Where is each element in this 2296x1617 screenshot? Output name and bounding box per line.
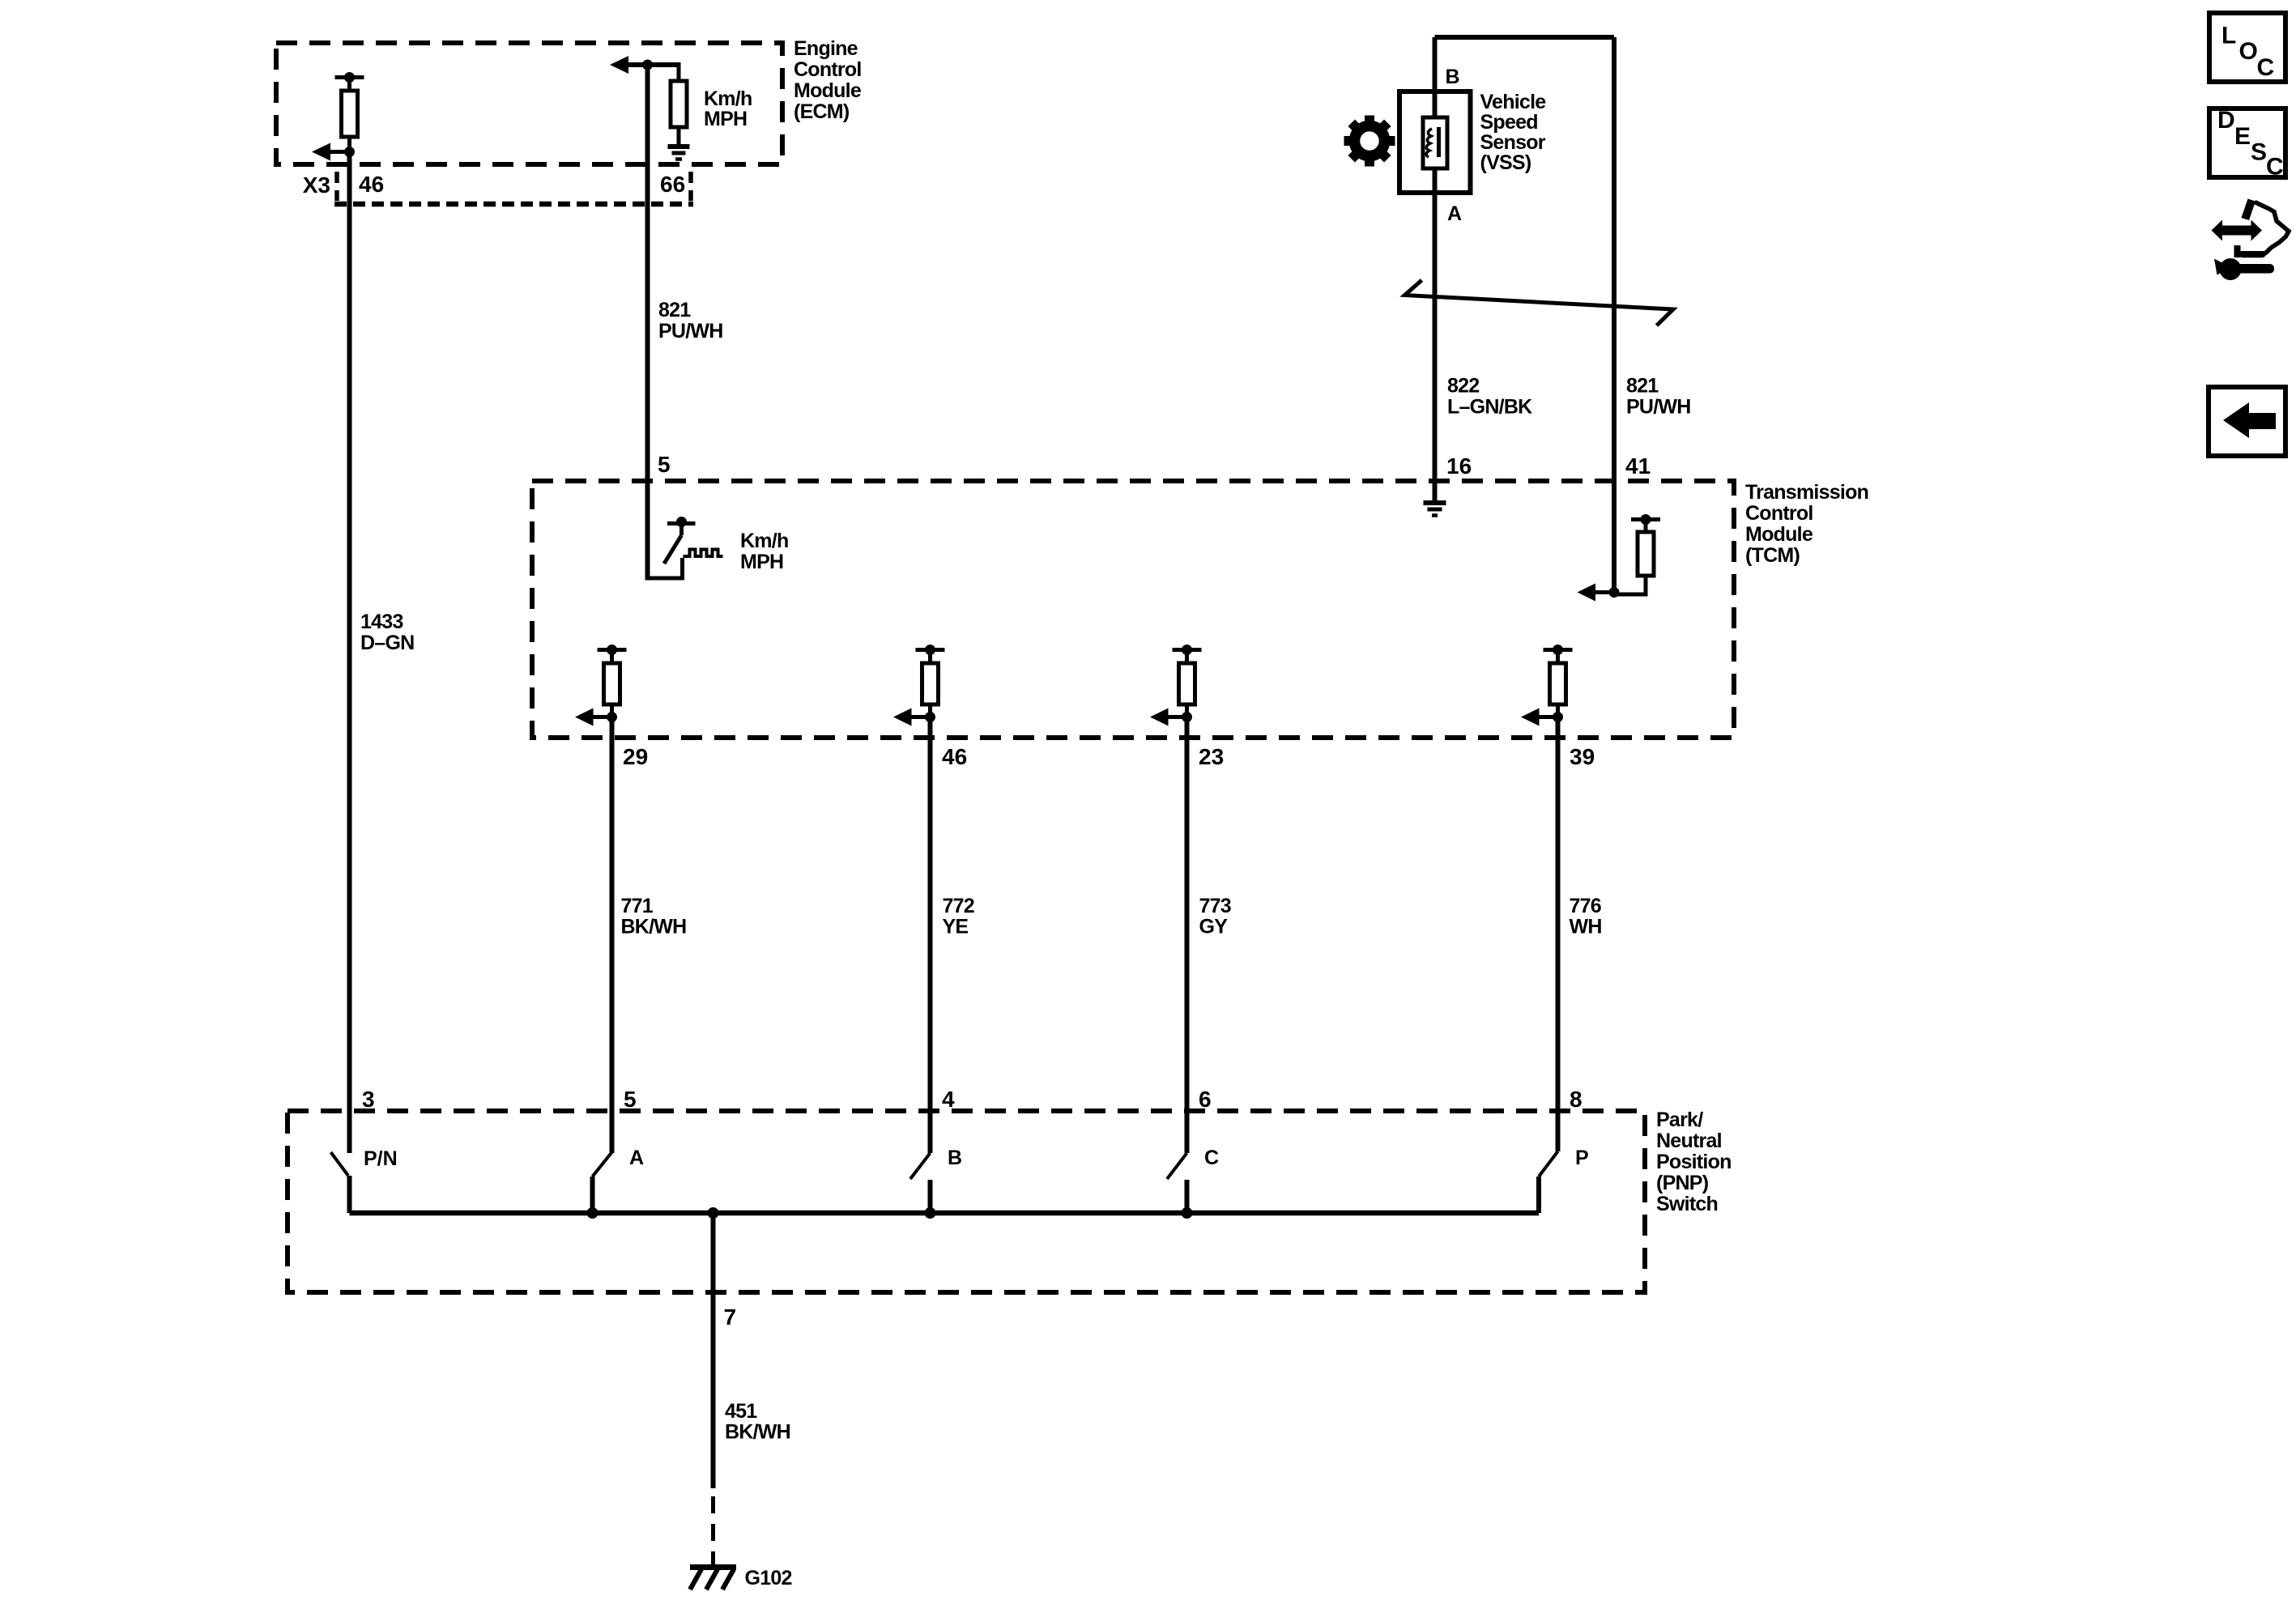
label: Transmission Control Module (TCM)	[1745, 481, 1868, 567]
switch P/N blade and lower contact	[331, 1152, 350, 1213]
svg-text:BK/WH: BK/WH	[621, 916, 687, 938]
svg-text:C: C	[2257, 54, 2275, 81]
label: G102	[745, 1567, 792, 1589]
svg-text:Switch: Switch	[1656, 1193, 1718, 1215]
ground: TCM pin 16 internal ground	[1424, 503, 1446, 516]
wire: 771 BK/WH from TCM pin 29 to PNP switch A	[610, 717, 615, 1154]
svg-text:Speed: Speed	[1480, 111, 1538, 134]
svg-text:772: 772	[943, 895, 974, 917]
pin 8 (PNP)	[1570, 1087, 1582, 1112]
svg-text:29: 29	[623, 744, 648, 769]
pin 5 (TCM)	[658, 452, 671, 477]
svg-text:A: A	[1447, 202, 1462, 225]
switch P blade and lower contact	[1539, 1151, 1558, 1213]
svg-text:Transmission: Transmission	[1745, 481, 1868, 504]
svg-text:C: C	[2266, 154, 2284, 181]
svg-text:5: 5	[658, 452, 671, 477]
label: wire 821 PU/WH (left run)	[658, 299, 723, 343]
signal arrow at TCM pin 41 with junction dot	[1578, 584, 1620, 602]
svg-text:821: 821	[658, 299, 691, 321]
svg-text:4: 4	[942, 1087, 955, 1112]
svg-text:S: S	[2251, 139, 2267, 166]
signal arrow at TCM pin 23 with junction dot	[1150, 709, 1192, 726]
svg-text:Km/h: Km/h	[740, 530, 789, 552]
junction node under switch A	[587, 1207, 598, 1219]
pin 41 (TCM)	[1625, 453, 1651, 479]
svg-text:3: 3	[362, 1087, 375, 1112]
svg-text:66: 66	[660, 172, 685, 197]
resistor: ECM internal pull-up at pin 66 (Km/h MPH)	[671, 62, 687, 147]
resistor: ECM internal pull-up at pin X3-46	[335, 72, 364, 152]
wire: 821 PU/WH from VSS pin B loop down to TCM pin 41	[1612, 37, 1617, 593]
svg-text:41: 41	[1625, 453, 1651, 479]
svg-text:GY: GY	[1199, 916, 1229, 938]
wire: 773 GY from TCM pin 23 to PNP switch C	[1185, 717, 1190, 1154]
signal arrow at TCM pin 29 with junction dot	[575, 709, 617, 726]
label: Park/Neutral Position (PNP) Switch	[1656, 1108, 1732, 1215]
module box: Park/Neutral Position (PNP) Switch, dashed	[288, 1111, 1645, 1292]
pin 46 (ECM X3)	[359, 172, 384, 197]
wire: 772 YE from TCM pin 46 to PNP switch B	[928, 717, 933, 1154]
svg-text:A: A	[629, 1147, 644, 1169]
svg-text:X3: X3	[303, 172, 330, 198]
label: switch B	[948, 1147, 962, 1169]
ground: ECM internal signal ground	[668, 147, 690, 160]
pin 6 (PNP)	[1199, 1087, 1212, 1112]
svg-text:39: 39	[1570, 744, 1595, 769]
svg-text:771: 771	[621, 895, 654, 917]
junction node at pin 7 drop	[708, 1207, 719, 1219]
wire: 822 L-GN/BK from VSS pin A down to TCM pin 16	[1433, 37, 1438, 503]
switch B blade and lower contact	[910, 1153, 931, 1213]
svg-text:5: 5	[624, 1087, 637, 1112]
svg-text:Park/: Park/	[1656, 1108, 1703, 1131]
svg-text:WH: WH	[1570, 916, 1602, 938]
svg-text:YE: YE	[943, 916, 969, 938]
svg-text:C: C	[1204, 1147, 1219, 1169]
label: connector X3	[303, 172, 330, 198]
svg-text:D–GN: D–GN	[360, 632, 414, 654]
svg-text:P: P	[1575, 1147, 1589, 1169]
gear wheel (reluctor) at VSS	[1344, 116, 1395, 167]
label: Engine Control Module (ECM)	[794, 37, 862, 123]
switch C blade and lower contact	[1167, 1153, 1187, 1213]
wire: 451 BK/WH from PNP pin 7 toward ground	[711, 1213, 716, 1488]
svg-text:O: O	[2239, 38, 2258, 65]
svg-text:16: 16	[1446, 453, 1472, 479]
junction node under switch C	[1182, 1207, 1193, 1219]
svg-text:B: B	[1446, 66, 1460, 88]
pin 7 (PNP)	[724, 1304, 737, 1330]
wire: 776 WH from TCM pin 39 to PNP switch P	[1556, 717, 1561, 1152]
connector: X3 row (dotted) with pins 46 and 66	[334, 172, 693, 204]
svg-text:46: 46	[942, 744, 967, 769]
svg-text:D: D	[2217, 107, 2235, 134]
pin 23 (TCM)	[1199, 744, 1224, 769]
switch A blade and lower contact	[593, 1152, 612, 1213]
junction node under switch B	[925, 1207, 936, 1219]
svg-text:1433: 1433	[360, 611, 403, 633]
svg-text:23: 23	[1199, 744, 1224, 769]
svg-text:Position: Position	[1656, 1151, 1732, 1173]
vehicle speed sensor VSS inner element box	[1423, 117, 1447, 168]
svg-text:6: 6	[1199, 1087, 1212, 1112]
svg-text:8: 8	[1570, 1087, 1582, 1112]
svg-text:Engine: Engine	[794, 37, 858, 60]
svg-text:P/N: P/N	[364, 1147, 398, 1170]
svg-text:773: 773	[1199, 895, 1231, 917]
svg-text:MPH: MPH	[704, 108, 747, 130]
svg-text:B: B	[948, 1147, 962, 1169]
signal arrow at ECM pin 66 with junction dot	[610, 56, 679, 74]
legend icon box: LOC	[2209, 13, 2285, 82]
pin 16 (TCM)	[1446, 453, 1472, 479]
label: wire 772 YE	[943, 895, 974, 938]
vehicle speed sensor VSS outer box	[1399, 91, 1471, 193]
wire: 821 PU/WH from ECM pin 66 to TCM pin 5 with end foot	[648, 65, 683, 581]
svg-text:46: 46	[359, 172, 384, 197]
twisted pair marker across wires 822 and 821	[1405, 280, 1674, 326]
svg-text:BK/WH: BK/WH	[725, 1421, 790, 1444]
label: switch P/N	[364, 1147, 398, 1170]
label: wire 1433 D-GN	[360, 611, 414, 654]
legend icon box: back arrow	[2209, 387, 2285, 456]
VSS sensor coil squiggle	[1426, 127, 1438, 157]
resistor: TCM internal pull-up at pin 46	[916, 645, 945, 717]
label: switch A	[629, 1147, 644, 1169]
svg-text:Module: Module	[794, 79, 862, 102]
svg-text:Sensor: Sensor	[1480, 131, 1546, 154]
svg-text:451: 451	[725, 1400, 757, 1423]
pin 66 (ECM X3)	[660, 172, 685, 197]
resistor: TCM internal pull-up at pin 39	[1544, 645, 1573, 717]
label: switch C	[1204, 1147, 1219, 1169]
svg-text:7: 7	[724, 1304, 737, 1330]
svg-text:Neutral: Neutral	[1656, 1130, 1722, 1152]
svg-text:E: E	[2234, 123, 2251, 150]
pin 39 (TCM)	[1570, 744, 1595, 769]
pin A (VSS)	[1447, 202, 1462, 225]
pin 4 (PNP)	[942, 1087, 955, 1112]
svg-text:776: 776	[1570, 895, 1601, 917]
ground G102 (chassis)	[690, 1568, 736, 1590]
svg-text:Control: Control	[1745, 502, 1813, 525]
pin 5 (PNP)	[624, 1087, 637, 1112]
label: wire 451 BK/WH	[725, 1400, 790, 1444]
wire: 1433 D-GN from ECM pin X3-46 down to PNP switch P/N	[347, 152, 352, 1154]
svg-text:G102: G102	[745, 1567, 792, 1589]
pin 3 (PNP)	[362, 1087, 375, 1112]
pin 29 (TCM)	[623, 744, 648, 769]
wire: VSS pin B loop (top horizontal run)	[1435, 35, 1615, 40]
module box: Engine Control Module (ECM), dashed	[276, 43, 782, 164]
label: wire 771 BK/WH	[621, 895, 687, 938]
pin 46 (TCM)	[942, 744, 967, 769]
module box: Transmission Control Module (TCM), dashed	[532, 481, 1734, 738]
svg-text:PU/WH: PU/WH	[1626, 396, 1691, 419]
svg-text:822: 822	[1447, 375, 1479, 398]
label: wire 776 WH	[1570, 895, 1602, 938]
label: wire 821 PU/WH (right run)	[1626, 375, 1691, 419]
label: Km/h MPH (TCM input)	[740, 530, 789, 573]
legend icon box: DESC	[2209, 107, 2285, 181]
svg-text:(TCM): (TCM)	[1745, 544, 1800, 567]
resistor: TCM internal pull-up at pin 41	[1614, 514, 1660, 594]
resistor: TCM internal pull-up at pin 23	[1173, 645, 1202, 717]
svg-text:L: L	[2221, 23, 2236, 49]
svg-text:Control: Control	[794, 58, 862, 81]
svg-text:821: 821	[1626, 375, 1659, 398]
svg-text:MPH: MPH	[740, 551, 783, 573]
label: Km/h MPH (ECM output)	[704, 87, 752, 130]
svg-text:(VSS): (VSS)	[1480, 151, 1531, 174]
svg-text:Vehicle: Vehicle	[1480, 91, 1547, 113]
signal arrow at TCM pin 46 with junction dot	[893, 709, 935, 726]
svg-text:Km/h: Km/h	[704, 87, 752, 110]
resistor: TCM internal pull-up at pin 29	[598, 645, 627, 717]
signal arrow at ECM pin 46 with junction dot	[312, 143, 355, 161]
label: wire 773 GY	[1199, 895, 1231, 938]
svg-text:(PNP): (PNP)	[1656, 1172, 1709, 1194]
svg-text:(ECM): (ECM)	[794, 100, 850, 123]
svg-text:L–GN/BK: L–GN/BK	[1447, 396, 1532, 419]
signal arrow at TCM pin 39 with junction dot	[1521, 709, 1563, 726]
pin B (VSS)	[1446, 66, 1460, 88]
wire: 451 BK/WH dashed continuation to G102	[711, 1496, 715, 1566]
legend icon: double arrow with component and wrench (service/repair)	[2212, 199, 2290, 281]
svg-text:Module: Module	[1745, 523, 1813, 546]
label: wire 822 L-GN/BK	[1447, 375, 1532, 419]
svg-text:PU/WH: PU/WH	[658, 320, 723, 343]
label: switch P	[1575, 1147, 1589, 1169]
wire: common bus inside PNP switch	[350, 1211, 1540, 1216]
speed signal generator symbol (Km/h MPH) inside TCM at pin 5	[664, 517, 723, 564]
label: Vehicle Speed Sensor (VSS)	[1480, 91, 1547, 174]
